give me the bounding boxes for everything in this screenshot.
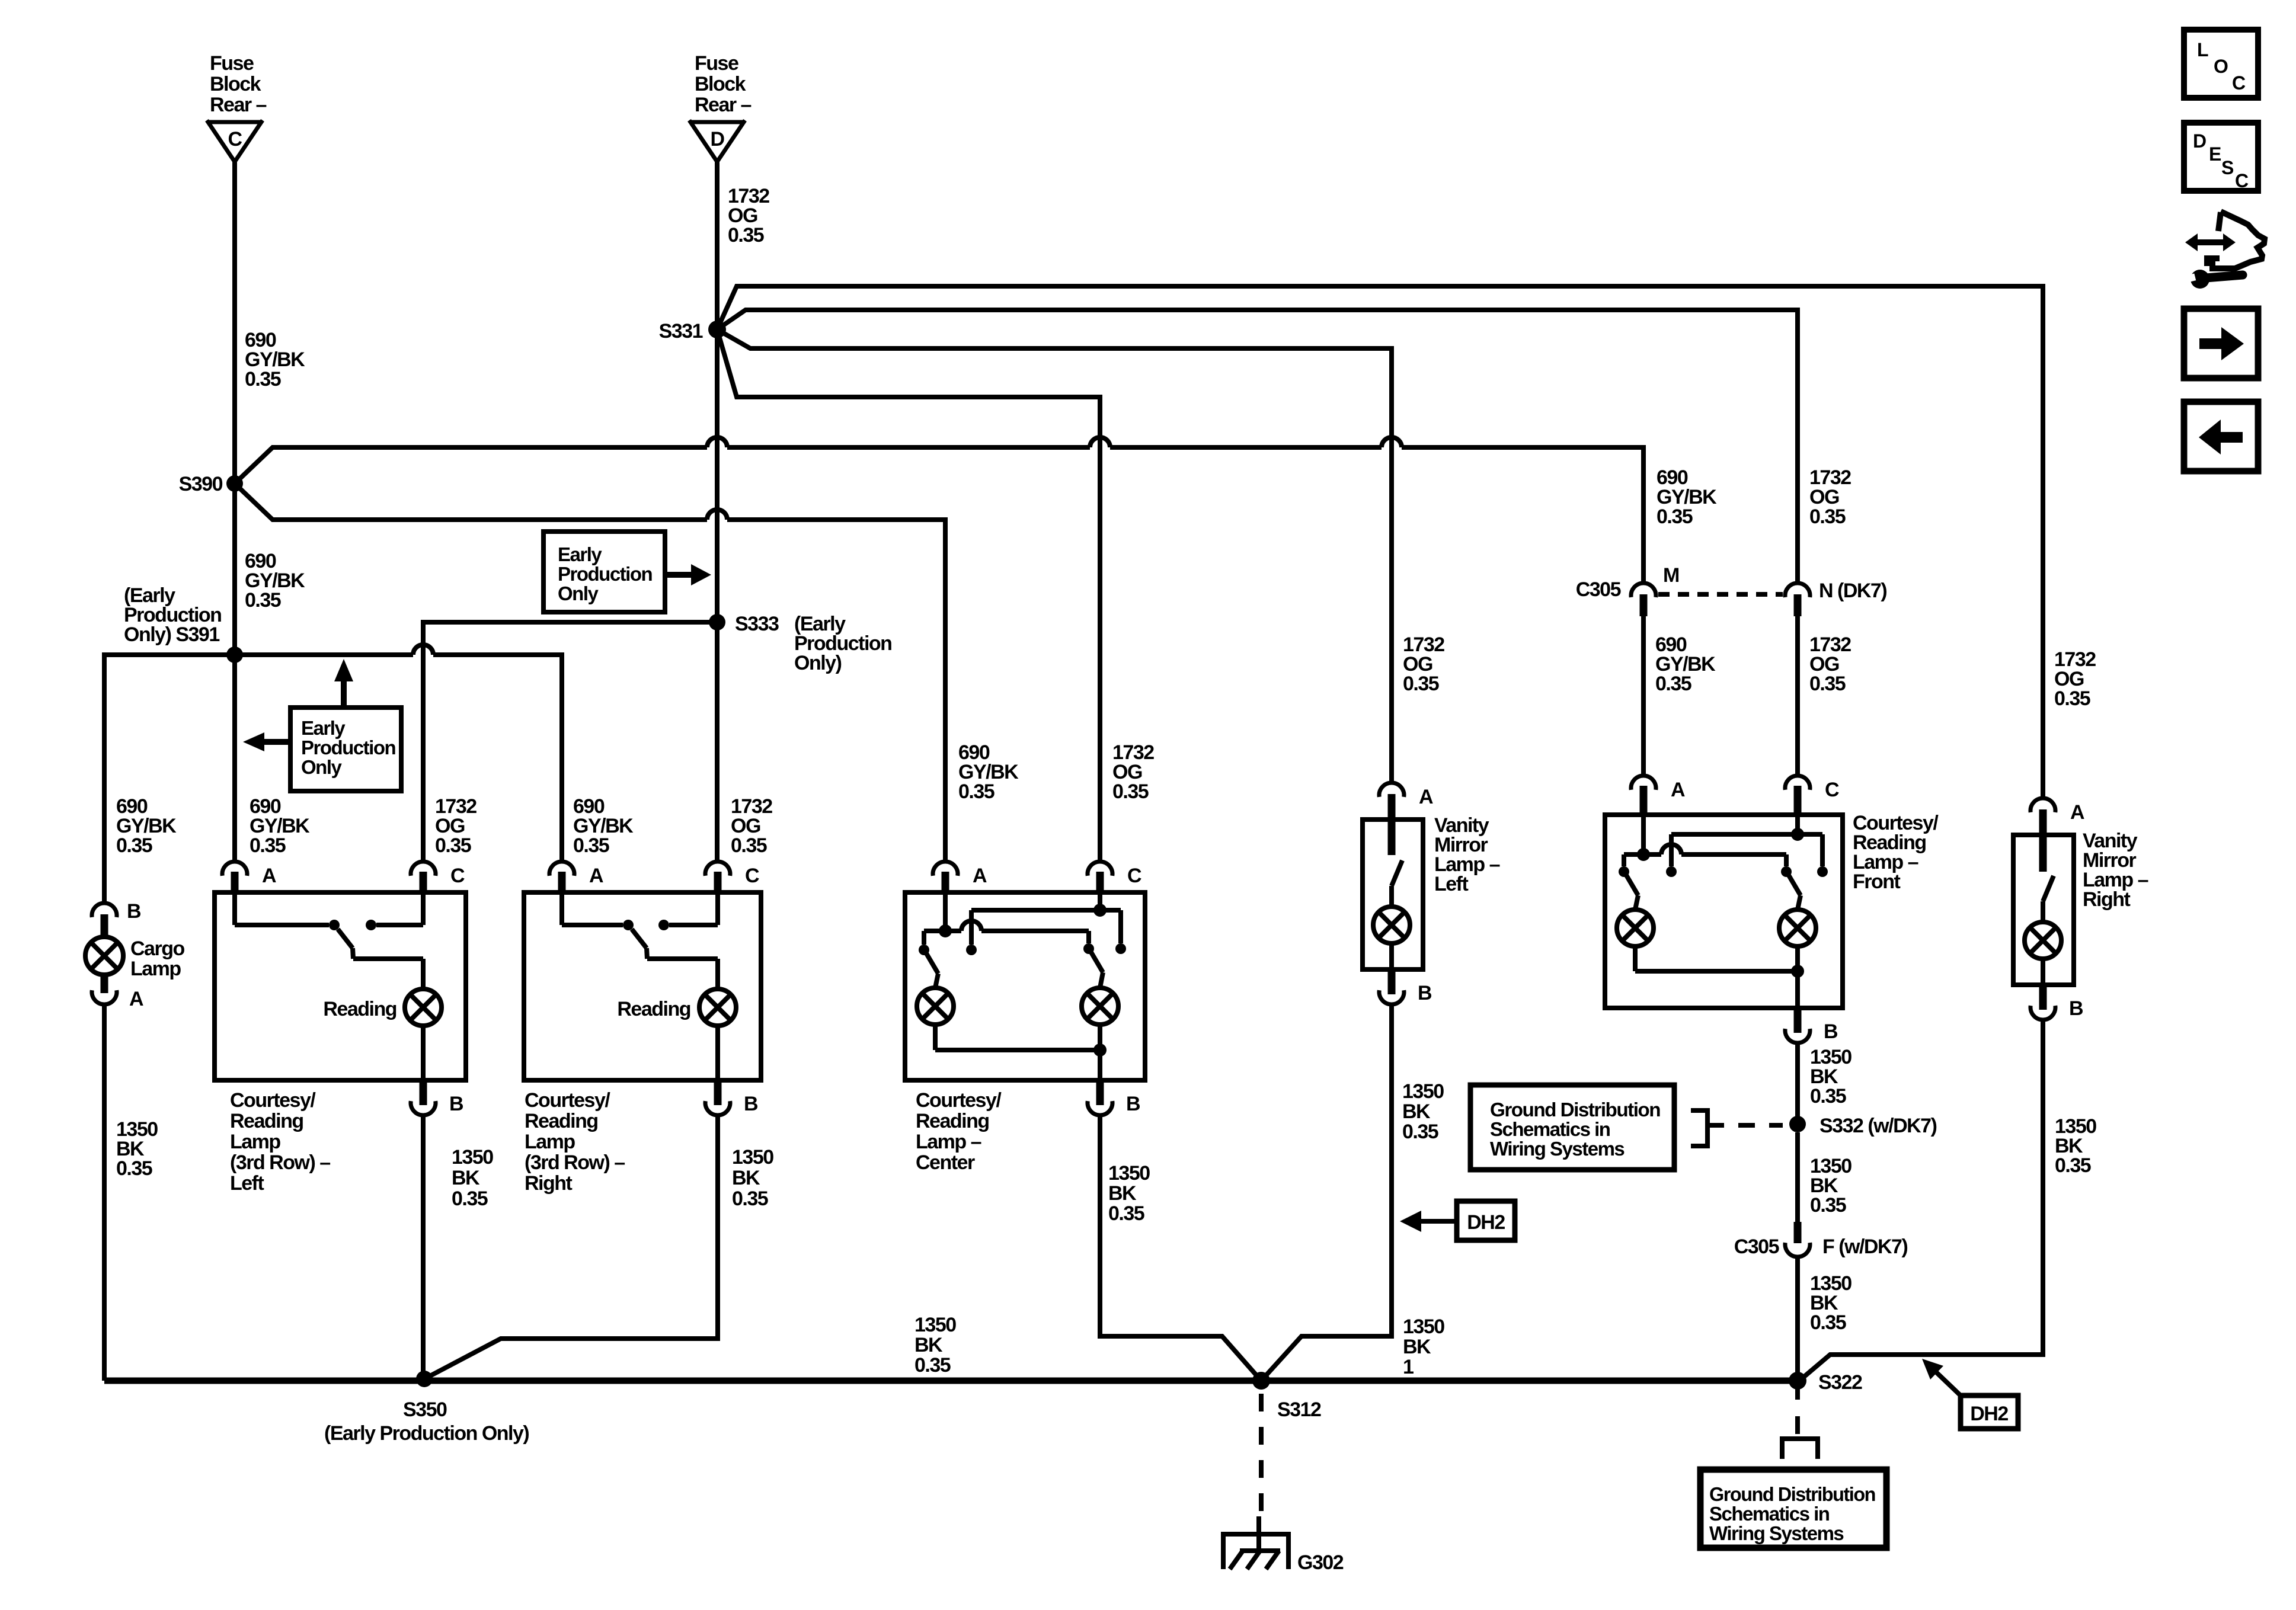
svg-text:C305: C305 <box>1576 578 1621 601</box>
svg-text:BK: BK <box>452 1167 480 1189</box>
svg-text:B: B <box>127 900 141 923</box>
svg-text:Cargo: Cargo <box>130 937 184 960</box>
icon box arrow right <box>2184 309 2258 378</box>
switch in vanity mirror right <box>2043 876 2054 901</box>
svg-text:BK: BK <box>1108 1182 1137 1205</box>
svg-text:0.35: 0.35 <box>2054 687 2090 710</box>
svg-text:0.35: 0.35 <box>731 834 767 857</box>
wire S390 lower branch to courtesy/reading lamp center A <box>235 484 707 520</box>
svg-text:Only: Only <box>301 756 342 778</box>
icon box LOC <box>2184 30 2258 98</box>
svg-text:Courtesy/: Courtesy/ <box>230 1089 316 1112</box>
svg-text:B: B <box>449 1093 463 1115</box>
svg-text:(Early Production Only): (Early Production Only) <box>324 1422 529 1445</box>
dashed wire S312 to G302 <box>1259 1394 1264 1517</box>
ground symbol G302 <box>1223 1534 1288 1569</box>
svg-text:M: M <box>1663 564 1679 587</box>
splice node S322 <box>1789 1372 1806 1390</box>
wire 690 GY/BK: S391 down to 3rd row left A <box>232 655 237 861</box>
svg-text:1350: 1350 <box>1403 1315 1444 1338</box>
fuse block rear connector C (triangle) <box>207 120 263 124</box>
front lamp bulb left <box>1626 875 1638 895</box>
connector A of 3rd row right lamp <box>549 862 574 876</box>
svg-text:0.35: 0.35 <box>452 1188 488 1210</box>
svg-text:A: A <box>262 865 276 887</box>
svg-text:C: C <box>2235 170 2249 191</box>
svg-text:0.35: 0.35 <box>728 224 764 247</box>
svg-text:Lamp –: Lamp – <box>916 1131 981 1153</box>
svg-text:1350: 1350 <box>914 1314 956 1336</box>
svg-text:F (w/DK7): F (w/DK7) <box>1822 1235 1907 1258</box>
wire 1350 BK: 3rd row right B to S350 <box>424 1116 718 1379</box>
wire C305 N down to front lamp C <box>1795 616 1800 776</box>
svg-text:Schematics in: Schematics in <box>1490 1118 1610 1140</box>
svg-text:D: D <box>710 128 724 151</box>
switch in 3rd row left lamp <box>232 892 237 925</box>
svg-text:0.35: 0.35 <box>250 834 286 857</box>
svg-text:C: C <box>1127 865 1141 887</box>
icon box DESC <box>2184 123 2258 191</box>
connector B of 3rd row right lamp <box>714 1080 722 1105</box>
svg-text:A: A <box>1671 779 1685 801</box>
callout box Early Production Only (up/left arrows) <box>290 708 401 791</box>
svg-text:0.35: 0.35 <box>914 1354 951 1377</box>
svg-text:S322: S322 <box>1818 1371 1862 1394</box>
svg-text:0.35: 0.35 <box>1108 1202 1144 1225</box>
fuse block rear connector D (triangle) <box>689 120 745 124</box>
svg-text:0.35: 0.35 <box>573 834 609 857</box>
svg-text:Front: Front <box>1853 870 1901 893</box>
svg-text:Reading: Reading <box>617 998 690 1020</box>
lamp bulb center-right <box>1091 952 1103 972</box>
svg-text:Rear –: Rear – <box>210 94 267 116</box>
harness bracket below S322 <box>1782 1439 1818 1459</box>
ground distribution reference box (S322) <box>1700 1470 1886 1548</box>
svg-text:A: A <box>1419 786 1433 808</box>
wire 1732 OG: S331 down to S333 <box>715 329 720 622</box>
splice node S390 <box>226 475 243 492</box>
svg-text:Block: Block <box>210 73 261 95</box>
switch network in center lamp <box>943 892 948 931</box>
splice node S331 <box>708 321 726 338</box>
svg-text:Right: Right <box>2083 888 2131 911</box>
svg-text:B: B <box>1824 1020 1838 1043</box>
svg-text:Left: Left <box>230 1172 264 1195</box>
splice node S333 <box>709 614 725 630</box>
svg-text:Center: Center <box>916 1151 975 1174</box>
svg-text:BK: BK <box>1402 1100 1431 1123</box>
connector B of front lamp <box>1794 1007 1802 1033</box>
front lamp common ground path <box>1633 946 1638 971</box>
vanity left lamp bulb <box>1389 886 1394 907</box>
wire S333 left branch to 3rd row left C <box>423 622 717 861</box>
svg-text:Ground Distribution: Ground Distribution <box>1709 1483 1875 1505</box>
svg-text:0.35: 0.35 <box>1403 673 1439 695</box>
splice node S350 <box>416 1371 433 1387</box>
svg-text:Production: Production <box>301 737 395 758</box>
svg-text:A: A <box>2070 801 2084 824</box>
svg-text:Early: Early <box>558 543 602 565</box>
svg-text:Wiring Systems: Wiring Systems <box>1709 1522 1843 1544</box>
svg-text:C: C <box>1825 779 1839 801</box>
svg-text:0.35: 0.35 <box>1809 505 1846 528</box>
wire 1350 BK: vanity left B to S312 <box>1261 1005 1392 1381</box>
svg-text:0.35: 0.35 <box>1655 673 1691 695</box>
svg-text:0.35: 0.35 <box>435 834 471 857</box>
dashed wire below S322 <box>1795 1389 1800 1400</box>
svg-text:0.35: 0.35 <box>1112 780 1149 803</box>
svg-text:C: C <box>228 128 242 151</box>
svg-text:Lamp: Lamp <box>130 958 181 980</box>
svg-text:Reading: Reading <box>916 1110 989 1132</box>
svg-text:Block: Block <box>695 73 746 95</box>
svg-text:Ground Distribution: Ground Distribution <box>1490 1099 1660 1121</box>
svg-text:C: C <box>450 865 465 887</box>
wire S391 horizontal to cargo lamp and 3rd row right A <box>104 655 413 903</box>
connector A of vanity mirror left <box>1379 783 1404 797</box>
callout box Early Production Only (right arrow) <box>543 532 665 612</box>
svg-text:Right: Right <box>525 1172 573 1195</box>
svg-text:B: B <box>2069 997 2083 1020</box>
svg-text:Fuse: Fuse <box>695 52 738 75</box>
svg-text:Rear –: Rear – <box>695 94 752 116</box>
svg-text:DH2: DH2 <box>1467 1211 1505 1234</box>
connector B of 3rd row left lamp <box>420 1080 427 1105</box>
wire 1350 BK: cargo lamp A down to ground bus <box>102 1005 107 1381</box>
svg-text:Fuse: Fuse <box>210 52 254 75</box>
svg-text:0.35: 0.35 <box>1657 505 1693 528</box>
wire 1350 BK: center lamp B to S312 <box>1100 1116 1261 1381</box>
svg-text:B: B <box>744 1093 758 1115</box>
wire S331 branch to vanity mirror right A (top) <box>717 286 2043 799</box>
svg-text:B: B <box>1126 1093 1140 1115</box>
ground distribution reference box (S332) <box>1470 1085 1674 1170</box>
callout DH2 (vanity left ground wire) <box>1457 1201 1515 1240</box>
svg-text:1350: 1350 <box>732 1146 773 1169</box>
reading lamp bulb (3rd row right) <box>715 959 720 989</box>
svg-text:0.35: 0.35 <box>1810 1085 1846 1108</box>
svg-text:1350: 1350 <box>452 1146 493 1169</box>
svg-text:Schematics in: Schematics in <box>1709 1503 1830 1525</box>
vanity right lamp bulb <box>2041 901 2045 923</box>
wire C305 M down to front lamp A <box>1641 616 1646 776</box>
svg-text:Wiring Systems: Wiring Systems <box>1490 1138 1624 1160</box>
svg-text:Only: Only <box>558 582 599 604</box>
svg-text:E: E <box>2209 143 2221 165</box>
svg-text:0.35: 0.35 <box>116 1157 152 1180</box>
vanity mirror lamp left box <box>1363 820 1423 969</box>
svg-text:S350: S350 <box>403 1398 447 1421</box>
connector C of 3rd row left lamp <box>411 862 436 876</box>
connector A of 3rd row left lamp <box>222 862 247 876</box>
svg-text:B: B <box>1418 982 1432 1004</box>
connector A of vanity mirror right <box>2030 798 2055 812</box>
wire 1732 OG: S333 down to 3rd row right C <box>715 622 720 861</box>
courtesy/reading lamp front box <box>1605 815 1843 1008</box>
svg-text:Left: Left <box>1434 873 1469 895</box>
wire S331 branch to vanity mirror left A <box>717 329 1392 783</box>
svg-text:(3rd Row) –: (3rd Row) – <box>230 1151 330 1174</box>
connector C305 M <box>1631 583 1656 597</box>
splice node S312 <box>1252 1372 1270 1390</box>
connector B of center lamp <box>1096 1080 1104 1105</box>
callout DH2 (S322 wire) <box>1961 1395 2018 1429</box>
wire front lamp B down to S332 <box>1795 1044 1800 1124</box>
switch network in front lamp <box>1641 815 1646 854</box>
svg-text:1350: 1350 <box>1108 1162 1150 1185</box>
svg-text:S332 (w/DK7): S332 (w/DK7) <box>1819 1115 1937 1137</box>
svg-text:0.35: 0.35 <box>116 834 152 857</box>
connector C305 N <box>1785 583 1810 597</box>
svg-text:G302: G302 <box>1297 1551 1344 1574</box>
wire 1350 BK: vanity right B to S322 <box>1799 1020 2043 1381</box>
connector B of cargo lamp <box>92 903 117 917</box>
svg-text:S: S <box>2221 157 2234 178</box>
svg-text:Courtesy/: Courtesy/ <box>525 1089 610 1112</box>
connector B of vanity mirror left <box>1388 969 1396 994</box>
svg-text:1350: 1350 <box>1402 1080 1444 1103</box>
svg-text:BK: BK <box>914 1334 943 1356</box>
wire S331 branch to courtesy/reading lamp center C <box>717 329 1100 862</box>
svg-text:DH2: DH2 <box>1970 1403 2008 1425</box>
connector B of vanity mirror right <box>2039 984 2047 1010</box>
svg-text:0.35: 0.35 <box>245 368 281 391</box>
front lamp bulb right <box>1789 875 1801 895</box>
svg-text:0.35: 0.35 <box>732 1188 768 1210</box>
svg-text:(3rd Row) –: (3rd Row) – <box>525 1151 625 1174</box>
svg-text:A: A <box>589 865 603 887</box>
wire S332 down to C305 F <box>1795 1132 1800 1222</box>
svg-text:N (DK7): N (DK7) <box>1819 580 1886 602</box>
cargo lamp bulb <box>101 914 108 937</box>
svg-text:BK: BK <box>732 1167 760 1189</box>
svg-text:0.35: 0.35 <box>1402 1121 1438 1143</box>
svg-text:0.35: 0.35 <box>245 589 281 612</box>
connector A of center lamp <box>933 862 958 876</box>
svg-text:0.35: 0.35 <box>1810 1311 1846 1334</box>
svg-text:Lamp: Lamp <box>230 1131 280 1153</box>
svg-text:0.35: 0.35 <box>1809 673 1846 695</box>
svg-text:S331: S331 <box>659 320 703 343</box>
svg-text:C: C <box>745 865 759 887</box>
center lamp common ground path <box>933 1025 938 1050</box>
lamp bulb center-left <box>926 953 938 974</box>
svg-text:S390: S390 <box>179 473 223 495</box>
svg-text:Reading: Reading <box>525 1110 598 1132</box>
icon vehicle with double arrow and wrench <box>2196 239 2223 245</box>
vanity mirror lamp right box <box>2013 835 2074 985</box>
wire S390 upper branch to C305 M <box>235 447 707 484</box>
wire 1350 BK: 3rd row left B down to S350 <box>421 1116 426 1379</box>
connector C of center lamp <box>1088 862 1112 876</box>
svg-text:C305: C305 <box>1734 1235 1779 1258</box>
svg-text:Production: Production <box>558 563 652 585</box>
connector C305 F <box>1794 1222 1802 1243</box>
reading lamp bulb (3rd row left) <box>421 959 426 989</box>
svg-text:Reading: Reading <box>323 998 396 1020</box>
wire 690 GY/BK: fuse C down to S390 <box>232 162 237 484</box>
svg-text:BK: BK <box>1403 1336 1431 1358</box>
svg-text:0.35: 0.35 <box>2055 1154 2091 1177</box>
courtesy/reading lamp (3rd row) right box <box>524 892 761 1080</box>
svg-text:0.35: 0.35 <box>958 780 994 803</box>
wire 690 GY/BK: S390 down to S391 <box>232 484 237 655</box>
switch in vanity mirror left <box>1392 860 1402 886</box>
connector A of front lamp <box>1631 776 1656 790</box>
bracket from box to S332 dashed line <box>1691 1110 1707 1146</box>
connector C of 3rd row right lamp <box>705 862 730 876</box>
splice node S332 <box>1789 1116 1806 1132</box>
splice node S391 <box>226 646 243 663</box>
svg-text:Courtesy/: Courtesy/ <box>916 1089 1002 1112</box>
svg-text:A: A <box>973 865 987 887</box>
ground bus wire 1350 BK <box>104 1378 1798 1384</box>
svg-text:L: L <box>2197 39 2208 60</box>
connector A of cargo lamp <box>92 990 117 1004</box>
svg-text:Early: Early <box>301 717 346 739</box>
svg-text:A: A <box>129 988 143 1010</box>
svg-text:Only) S391: Only) S391 <box>124 623 219 646</box>
svg-text:C: C <box>2232 72 2246 94</box>
courtesy/reading lamp center box <box>905 892 1145 1080</box>
icon box arrow left <box>2184 402 2258 471</box>
courtesy/reading lamp (3rd row) left box <box>215 892 466 1080</box>
svg-text:S312: S312 <box>1277 1398 1321 1421</box>
wire 1732 OG: fuse D down to S331 <box>715 162 720 329</box>
switch in 3rd row right lamp <box>559 892 564 925</box>
wire S331 branch to C305 N <box>717 310 1798 584</box>
svg-text:Reading: Reading <box>230 1110 303 1132</box>
connector C of front lamp <box>1785 776 1810 790</box>
wire C305 F down to S322 <box>1795 1257 1800 1381</box>
svg-text:0.35: 0.35 <box>1810 1194 1846 1217</box>
svg-text:Only): Only) <box>794 652 842 674</box>
svg-text:Lamp: Lamp <box>525 1131 575 1153</box>
svg-text:O: O <box>2214 56 2228 77</box>
svg-text:1: 1 <box>1403 1356 1414 1378</box>
dashed connector line C305 M-N <box>1658 592 1783 597</box>
svg-text:S333: S333 <box>735 613 779 635</box>
svg-text:D: D <box>2193 130 2206 152</box>
